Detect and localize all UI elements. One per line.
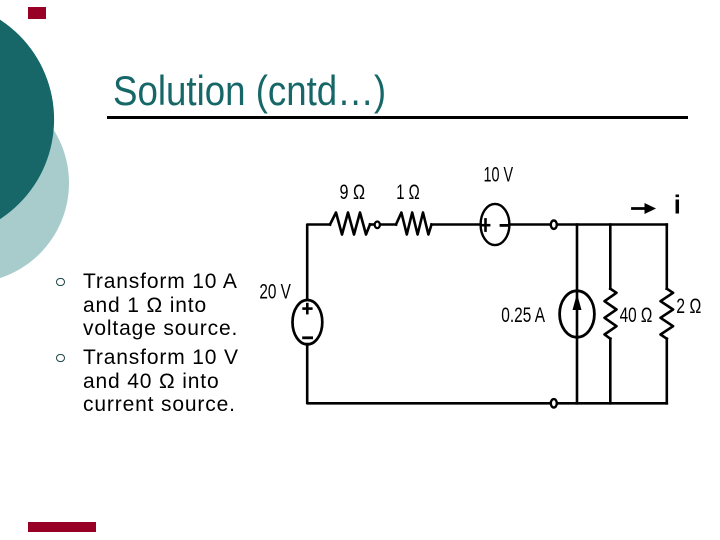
voltage source 10V ellipse <box>481 204 510 245</box>
node bottom <box>551 399 557 407</box>
wire current source branch <box>576 225 579 404</box>
svg-text:0.25 A: 0.25 A <box>501 304 545 327</box>
wire node to top-right corner <box>558 223 667 226</box>
40-ohm branch wire upper <box>609 225 612 289</box>
node between resistors <box>375 222 380 229</box>
svg-text:10 V: 10 V <box>484 164 514 187</box>
light teal circle <box>0 83 69 283</box>
svg-text:2 Ω: 2 Ω <box>676 295 701 318</box>
red accent bar bottom-left <box>28 522 96 532</box>
wire top-left corner to 9-ohm <box>307 225 330 301</box>
plus sign inside 10V <box>482 224 489 227</box>
right branch wire lower <box>665 339 668 404</box>
svg-text:1 Ω: 1 Ω <box>396 181 420 204</box>
bullet list <box>52 270 262 417</box>
wire 1ohm to 10V source <box>432 223 481 226</box>
minus sign inside 20V <box>304 336 312 339</box>
wire 10V to node <box>509 223 549 226</box>
arrow inside current source <box>573 294 582 310</box>
wire 20V to bottom-left corner <box>307 344 549 403</box>
right branch wire upper <box>665 225 668 289</box>
resistor R 40ohm zigzag <box>605 289 617 339</box>
svg-text:i: i <box>674 191 681 219</box>
plus sign inside 20V <box>304 307 312 310</box>
minus sign inside 10V <box>501 224 508 227</box>
wire node to 1-ohm <box>380 223 396 226</box>
node top <box>551 221 557 229</box>
resistor R 2ohm zigzag <box>661 289 674 339</box>
current source 0.25A ellipse <box>560 291 595 337</box>
labels <box>259 164 701 328</box>
dark teal circle <box>0 0 54 238</box>
wire bottom node to bottom-right corner <box>558 402 667 405</box>
svg-text:20 V: 20 V <box>259 281 291 304</box>
resistor R 1ohm zigzag <box>396 213 432 235</box>
red accent box top-left <box>28 7 46 19</box>
title <box>113 67 386 115</box>
left branch: voltage source 20V <box>293 300 323 344</box>
bullet 1 <box>52 270 262 341</box>
bullet 2 <box>52 346 262 417</box>
svg-text:40 Ω: 40 Ω <box>620 304 653 327</box>
40-ohm branch wire lower <box>609 339 612 404</box>
current direction arrow <box>633 207 647 210</box>
resistor R 9ohm zigzag <box>330 213 370 235</box>
wire 9ohm to node <box>370 223 374 226</box>
title underline <box>107 116 688 119</box>
svg-text:9 Ω: 9 Ω <box>340 181 366 204</box>
